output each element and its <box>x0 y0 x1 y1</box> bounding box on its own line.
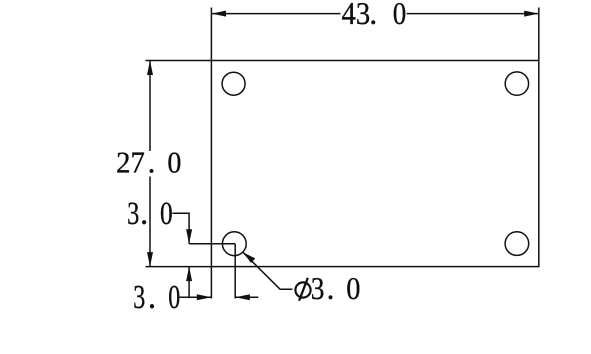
svg-text:0: 0 <box>160 196 173 232</box>
svg-text:0: 0 <box>346 270 360 306</box>
svg-text:0: 0 <box>168 279 180 316</box>
arrowhead dia leader <box>243 252 255 263</box>
dimension line lower 3.0 right tail <box>235 296 258 298</box>
arrowhead lower 3.0 left <box>235 294 250 300</box>
extension line left edge below rect <box>210 267 212 299</box>
svg-text:0: 0 <box>167 145 181 180</box>
hole bottom-right <box>505 232 529 256</box>
arrowhead lower 3.0 right <box>197 294 212 300</box>
arrowhead upper 3.0 down <box>186 229 192 244</box>
leader line of dia 3.0 <box>243 252 293 289</box>
svg-text:3: 3 <box>127 196 139 232</box>
leader of upper dim 3.0 <box>172 213 189 244</box>
dimension line 27.0 upper segment <box>149 61 151 152</box>
svg-text:.: . <box>327 270 335 306</box>
arrowhead upper 3.0 up from below <box>186 267 192 282</box>
arrowhead dim 43.0 right <box>524 11 539 17</box>
extension line right of dim 43.0 <box>538 8 540 61</box>
svg-text:.: . <box>148 279 157 316</box>
extension line left of dim 43.0 <box>210 8 212 61</box>
svg-text:3: 3 <box>311 270 325 306</box>
hole top-right <box>505 72 528 95</box>
dimension line 43.0 left segment <box>211 13 340 15</box>
extension line bottom of dim 27.0 <box>146 266 212 268</box>
svg-text:0: 0 <box>393 0 407 31</box>
svg-text:.: . <box>369 0 377 31</box>
dim text 27.0 <box>116 145 181 180</box>
plate outline rectangle <box>211 61 538 267</box>
arrowhead dim 27.0 bottom <box>147 252 153 267</box>
extension line hole-center vertical <box>234 244 236 299</box>
hole top-left <box>222 72 245 95</box>
dim text lower 3.0 <box>133 279 180 316</box>
dimension line 27.0 lower segment <box>149 177 151 267</box>
arrowhead dim 43.0 left <box>211 11 226 17</box>
svg-text:.: . <box>140 196 148 232</box>
arrowhead dim 27.0 top <box>147 61 153 76</box>
svg-text:3: 3 <box>133 279 145 316</box>
extension line hole-center horizontal <box>189 243 235 245</box>
diameter symbol <box>295 278 310 301</box>
svg-text:27: 27 <box>116 145 145 180</box>
dimension line 43.0 right segment <box>407 13 539 15</box>
dim text 43.0 <box>342 0 407 31</box>
dim text upper 3.0 <box>127 196 173 232</box>
svg-text:.: . <box>148 145 156 180</box>
hole bottom-left <box>222 232 246 256</box>
svg-text:43: 43 <box>342 0 371 31</box>
extension line top of dim 27.0 <box>146 60 212 62</box>
dim text dia 3.0 <box>311 270 361 306</box>
dimension line lower 3.0 left part <box>179 296 211 298</box>
dimension tail below bottom edge at x 189 <box>188 267 190 299</box>
